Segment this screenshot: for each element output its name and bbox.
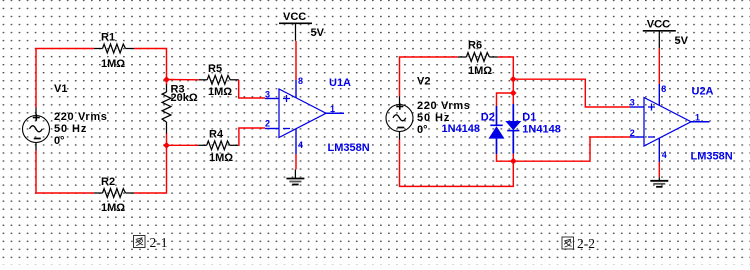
svg-text:R1: R1 bbox=[101, 32, 115, 44]
svg-text:1MΩ: 1MΩ bbox=[101, 58, 125, 70]
resistor R4 1MΩ bbox=[198, 129, 238, 165]
U1A pin 8 stub bbox=[296, 76, 303, 98]
svg-text:1: 1 bbox=[695, 113, 700, 123]
svg-text:1N4148: 1N4148 bbox=[442, 123, 481, 135]
svg-text:1N4148: 1N4148 bbox=[522, 124, 561, 136]
svg-text:8: 8 bbox=[298, 76, 303, 86]
ground symbol 1 bbox=[286, 170, 304, 185]
op-amp U2A bbox=[630, 86, 733, 163]
resistor R2 1MΩ bbox=[94, 176, 134, 214]
diode D1 1N4148 bbox=[505, 104, 561, 154]
node D junction bbox=[510, 90, 517, 97]
svg-text:220 Vrms: 220 Vrms bbox=[54, 111, 108, 123]
wire R2 to node B bbox=[134, 145, 167, 193]
svg-text:1: 1 bbox=[330, 104, 335, 114]
node A junction bbox=[163, 76, 170, 83]
svg-text:220 Vrms: 220 Vrms bbox=[417, 100, 471, 112]
wire V1 bottom rail bbox=[36, 151, 94, 194]
svg-text:4: 4 bbox=[298, 140, 303, 150]
wire node C to node D bbox=[512, 79, 514, 93]
svg-text:1MΩ: 1MΩ bbox=[208, 86, 232, 98]
svg-text:8: 8 bbox=[661, 84, 666, 94]
AC voltage source V1 bbox=[23, 83, 108, 151]
wire node E to U2A - input bbox=[513, 137, 630, 161]
U1A output pin 1 bbox=[326, 104, 344, 114]
wire R3 stubs red bbox=[166, 80, 168, 146]
wire node D to D2 anode bbox=[497, 93, 514, 106]
wire V2 bottom to node E bbox=[400, 140, 514, 187]
svg-text:3: 3 bbox=[630, 98, 635, 108]
wire R6 to node C bbox=[498, 57, 513, 79]
svg-text:R4: R4 bbox=[209, 129, 224, 141]
wire node B to R4 bbox=[167, 144, 199, 146]
wire U1A pin 4 to ground bbox=[295, 154, 297, 170]
svg-text:4: 4 bbox=[662, 150, 667, 160]
resistor R1 1MΩ bbox=[94, 32, 134, 71]
op-amp U1A bbox=[265, 77, 370, 154]
svg-text:VCC: VCC bbox=[283, 11, 306, 23]
U2A pin 3 label bbox=[630, 98, 635, 108]
resistor R6 1MΩ bbox=[458, 40, 498, 78]
svg-text:50 Hz: 50 Hz bbox=[54, 123, 87, 135]
U1A pin 2 label bbox=[265, 119, 270, 129]
wire R4 to op-amp - input bbox=[238, 128, 265, 145]
U2A pin 8 stub bbox=[659, 84, 666, 106]
svg-text:VCC: VCC bbox=[647, 19, 670, 31]
VCC power symbol 1 bbox=[279, 11, 312, 41]
wire D1 cathode to node E bbox=[512, 154, 514, 162]
node E junction bbox=[510, 158, 517, 165]
svg-text:R2: R2 bbox=[101, 176, 115, 188]
VCC power symbol 2 bbox=[643, 19, 676, 49]
label 5V (1) bbox=[311, 27, 325, 39]
caption tu 2-2 bbox=[562, 236, 595, 251]
wire U2A pin 4 to ground bbox=[658, 162, 660, 177]
svg-text:LM358N: LM358N bbox=[328, 142, 370, 154]
svg-text:1MΩ: 1MΩ bbox=[468, 65, 492, 77]
svg-text:2-1: 2-1 bbox=[150, 235, 168, 250]
U2A output pin 1 bbox=[691, 113, 710, 123]
diode D2 1N4148 bbox=[442, 106, 505, 154]
svg-text:V2: V2 bbox=[417, 76, 430, 88]
label 5V (2) bbox=[675, 35, 689, 47]
svg-text:0°: 0° bbox=[54, 135, 65, 147]
node B junction bbox=[163, 142, 170, 149]
svg-text:2: 2 bbox=[630, 128, 635, 138]
ground symbol 2 bbox=[650, 177, 668, 187]
U2A pin 2 label bbox=[630, 128, 635, 138]
caption tu 2-1 bbox=[134, 235, 168, 250]
wire node D to D1 bbox=[512, 93, 514, 104]
U1A pin 3 label bbox=[265, 90, 270, 100]
svg-text:U1A: U1A bbox=[329, 77, 351, 89]
svg-text:5V: 5V bbox=[675, 35, 689, 47]
svg-text:1MΩ: 1MΩ bbox=[209, 152, 233, 164]
svg-text:2-2: 2-2 bbox=[577, 236, 595, 251]
svg-text:1MΩ: 1MΩ bbox=[101, 202, 125, 214]
wire VCC to U2A pin 8 bbox=[658, 48, 660, 84]
resistor R5 1MΩ bbox=[199, 63, 239, 98]
resistor R3 20kΩ vertical bbox=[162, 84, 198, 135]
svg-text:V1: V1 bbox=[54, 83, 67, 95]
svg-text:20kΩ: 20kΩ bbox=[171, 92, 198, 104]
wire R5 to op-amp + input bbox=[239, 80, 265, 98]
AC voltage source V2 bbox=[386, 76, 471, 140]
wire node A to R5 bbox=[167, 79, 199, 81]
node C junction bbox=[510, 76, 517, 83]
svg-text:0°: 0° bbox=[417, 124, 428, 136]
U2A pin 4 stub bbox=[659, 138, 667, 162]
svg-text:D2: D2 bbox=[481, 112, 495, 124]
wire V1 top to R1 bbox=[36, 49, 94, 108]
wire node C to U2A + input bbox=[513, 79, 630, 107]
svg-text:5V: 5V bbox=[311, 27, 325, 39]
wire V2 top to R6 bbox=[400, 57, 458, 97]
svg-text:D1: D1 bbox=[522, 112, 536, 124]
U1A pin 4 stub bbox=[296, 129, 303, 154]
wire VCC to U1A pin 8 bbox=[295, 41, 297, 80]
svg-text:2: 2 bbox=[265, 119, 270, 129]
svg-text:U2A: U2A bbox=[692, 86, 714, 98]
svg-text:3: 3 bbox=[265, 90, 270, 100]
svg-text:R5: R5 bbox=[208, 63, 222, 75]
svg-text:LM358N: LM358N bbox=[691, 151, 733, 163]
svg-text:R6: R6 bbox=[468, 40, 482, 52]
wire R1 to node A bbox=[134, 49, 167, 80]
wire D2 cathode down bbox=[497, 154, 514, 161]
